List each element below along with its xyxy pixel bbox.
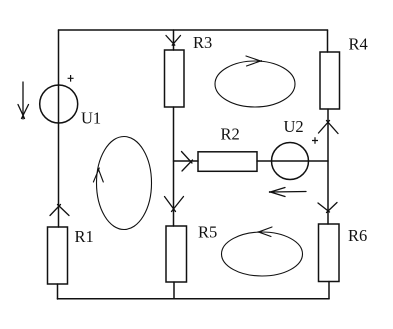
arrow current right on middle wire	[182, 152, 193, 172]
label R6	[348, 226, 367, 245]
svg-text:R4: R4	[349, 35, 368, 54]
resistor R4	[320, 52, 340, 109]
wire left branch upper	[58, 30, 60, 227]
voltage source U2	[272, 143, 309, 180]
arrow current up below R4	[319, 121, 339, 134]
mesh loop bottom-right ellipse	[222, 232, 303, 276]
label R4	[349, 35, 368, 54]
plus sign U1	[68, 75, 74, 82]
wire top	[59, 29, 328, 31]
svg-text:U2: U2	[284, 117, 304, 136]
label R3	[193, 33, 212, 52]
resistor R5	[166, 226, 187, 282]
arrow current down above R5	[165, 197, 184, 212]
resistor R6	[319, 224, 340, 282]
wire right branch center	[327, 109, 329, 224]
resistor R2	[198, 152, 257, 172]
svg-text:U1: U1	[81, 109, 101, 128]
mesh loop left ellipse	[97, 137, 152, 230]
wire middle branch center	[173, 107, 175, 226]
wire middle branch upper	[173, 30, 175, 50]
arrow current down above R6	[318, 203, 337, 213]
wire left branch lower	[57, 284, 59, 299]
wire middle horizontal left	[174, 160, 199, 162]
voltage source U1	[40, 85, 78, 123]
label R1	[75, 227, 94, 246]
wire right branch lower	[328, 282, 330, 299]
mesh loop bottom-right arrow left	[258, 227, 272, 237]
mesh loop top-right arrow right	[246, 56, 262, 66]
resistor R1	[48, 227, 68, 284]
mesh loop left arrow up	[93, 168, 103, 182]
mesh loop top-right ellipse	[215, 61, 295, 107]
svg-text:R3: R3	[193, 33, 212, 52]
svg-text:R5: R5	[198, 223, 217, 242]
resistor R3	[165, 50, 185, 107]
arrow current U1 external down	[18, 82, 29, 119]
label U2	[284, 117, 304, 136]
wire middle horizontal right	[257, 160, 328, 162]
label R2	[221, 125, 240, 144]
arrow current down into R3	[166, 36, 181, 46]
svg-text:R6: R6	[348, 226, 367, 245]
wire middle branch lower	[173, 282, 175, 299]
plus sign U2	[312, 137, 318, 143]
arrow current up above R1	[50, 205, 69, 216]
wire right branch upper	[327, 30, 329, 52]
label R5	[198, 223, 217, 242]
svg-text:R1: R1	[75, 227, 94, 246]
label U1	[81, 109, 101, 128]
arrow current left below middle wire	[270, 188, 307, 197]
wire bottom	[58, 298, 330, 300]
svg-text:R2: R2	[221, 125, 240, 144]
